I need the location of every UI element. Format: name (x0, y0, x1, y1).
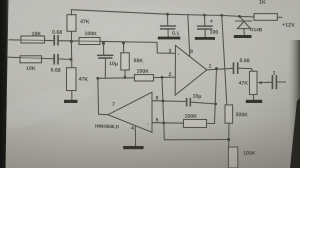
resistor R7 series to +12V (254, 14, 277, 21)
capacitor C4 0.1 (167, 14, 169, 25)
resistor R4 47K to ground (67, 68, 77, 91)
wire: node wire to pin 2 (98, 77, 135, 80)
op-amp U1A triangle (175, 46, 207, 96)
wire: pin4 down (134, 126, 136, 146)
svg-text:100K: 100K (84, 31, 97, 37)
wire: pin5 (152, 122, 183, 125)
capacitor C5 100u electrolytic (204, 15, 206, 25)
ground (D1) (234, 35, 252, 38)
svg-text:100K: 100K (184, 114, 197, 120)
svg-text:300K: 300K (235, 112, 248, 118)
ground (C4) (158, 37, 181, 40)
capacitor C8 1u output (269, 81, 272, 83)
resistor R1 10K (21, 36, 45, 43)
capacitor C7 0.68 output (233, 63, 235, 75)
node dot C6 (214, 103, 217, 106)
node dot pin2 (161, 76, 164, 79)
resistor R8 100K feedback (184, 120, 207, 128)
wire: input A (9, 40, 157, 43)
dark page edge left (0, 0, 9, 168)
op-amp input polarity marks (146, 52, 180, 127)
svg-text:8: 8 (190, 49, 193, 55)
svg-text:+12V: +12V (282, 22, 295, 28)
svg-text:47K: 47K (80, 19, 90, 25)
wire: vertical J1-J4-47K (70, 41, 72, 67)
paper background (0, 0, 300, 168)
capacitor C3 10u vertical branch (103, 43, 105, 54)
svg-text:2: 2 (168, 72, 171, 78)
resistor R2 10K (20, 56, 42, 63)
wire: bias vertical from rail (222, 15, 227, 105)
ground (R4) (64, 100, 78, 103)
svg-text:3: 3 (168, 49, 171, 55)
svg-text:100K: 100K (136, 69, 149, 75)
node dot bias (227, 138, 230, 141)
wire: pin8 to rail (188, 15, 190, 56)
wire: output pin1 (207, 68, 234, 70)
svg-text:1: 1 (272, 71, 275, 77)
node dot rail zener (238, 15, 241, 18)
node dot rail bias (220, 14, 223, 17)
node: mix junction J1 (70, 40, 73, 43)
zener D1 (240, 16, 244, 20)
svg-text:4: 4 (131, 126, 134, 132)
svg-text:6: 6 (155, 96, 158, 102)
resistor R_47K upper (47K from rail to mix node) (70, 10, 72, 15)
capacitor C2 0.68 (53, 54, 55, 65)
resistor R5 68K vertical (123, 43, 125, 53)
capacitor C6 10u (pin6 coupling) (186, 98, 188, 107)
svg-text:10K: 10K (26, 66, 36, 72)
node dot output (215, 67, 218, 70)
svg-text:1K: 1K (259, 0, 266, 6)
node dot rail 100 (203, 14, 206, 17)
node J4: row2 joins vertical (70, 58, 73, 61)
capacitor C1 0.68 (53, 35, 55, 46)
svg-text:10μ: 10μ (192, 94, 201, 100)
svg-text:0.68: 0.68 (239, 58, 249, 64)
wire: pin6 (152, 100, 186, 103)
svg-text:10μ: 10μ (109, 61, 118, 67)
svg-text:100: 100 (209, 30, 218, 36)
node dot rail 0.1 (166, 13, 169, 16)
potentiometer VR1 47K (250, 71, 258, 94)
wire: +12V supply rail (71, 10, 254, 17)
node dot 68K (124, 76, 127, 79)
svg-text:1: 1 (208, 64, 211, 70)
svg-text:HIM4558LD: HIM4558LD (95, 124, 120, 130)
svg-text:68K: 68K (133, 58, 143, 64)
resistor R10 100K lower (228, 147, 237, 168)
svg-text:0.1: 0.1 (172, 31, 180, 37)
wire: input B (8, 57, 71, 59)
wiper arrow (261, 81, 270, 83)
svg-text:5: 5 (155, 118, 158, 124)
wire: long vertical pin2-pin6-pin5-bias (162, 77, 229, 140)
ground (pin4) (123, 146, 143, 149)
resistor R6 100K to pin2 (135, 75, 154, 81)
svg-text:7: 7 (112, 102, 115, 108)
node J3 (122, 42, 125, 45)
svg-text:100K: 100K (243, 151, 256, 157)
svg-text:0.68: 0.68 (50, 68, 60, 74)
svg-text:47K: 47K (78, 77, 88, 83)
svg-text:47K: 47K (238, 81, 248, 87)
svg-text:10K: 10K (31, 31, 41, 37)
resistor R9 300K (225, 105, 233, 123)
node J2 (102, 42, 105, 45)
wire: op2 output up (98, 78, 108, 114)
resistor R3 100K (row1) (79, 38, 100, 45)
op-amp U1B triangle (108, 92, 152, 132)
svg-text:0.68: 0.68 (52, 30, 62, 36)
node dot left (96, 77, 99, 80)
ground (C5) (195, 37, 215, 40)
wire: corner into pin 3 (157, 42, 176, 53)
ground (VR1) (246, 100, 262, 103)
svg-text:D14B: D14B (250, 27, 263, 33)
